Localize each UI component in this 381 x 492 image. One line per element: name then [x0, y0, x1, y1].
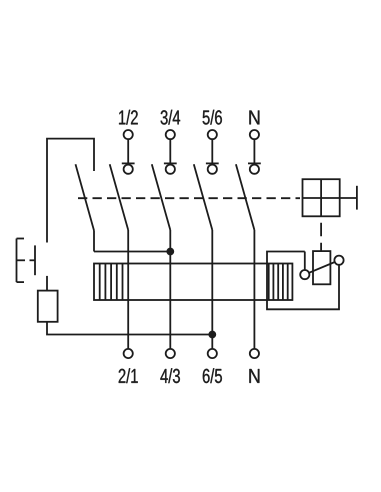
linkage mechanism to relay [320, 216, 322, 251]
wire pole4 down [253, 230, 255, 349]
wire pole3 top [211, 139, 213, 163]
switch blade pole2 [152, 164, 171, 230]
label N bottom [249, 369, 259, 383]
label 6/5 [203, 368, 222, 383]
label 4/3 [160, 368, 180, 383]
relay contact left [300, 270, 309, 279]
wire test branch top-left bracket [47, 139, 94, 243]
fixed contact pole3 [206, 163, 219, 173]
relay contact right [334, 256, 343, 265]
label N top [249, 111, 259, 125]
junction pole2 test tap [167, 249, 173, 255]
terminal 4/3 bottom [166, 349, 175, 358]
fixed contact pole4 [248, 163, 261, 173]
relay contact blade [309, 262, 335, 273]
wire pole4 top [253, 139, 255, 163]
label 5/6 [203, 110, 222, 125]
wire test pole down [93, 231, 95, 252]
wire button to resistor [46, 276, 48, 291]
test button contact bar [34, 245, 36, 275]
switch blade pole4 [236, 164, 255, 230]
terminal 3/4 top [166, 130, 175, 139]
resistor R test [38, 291, 58, 322]
toroid core [94, 264, 292, 301]
wire pole1 top [127, 139, 129, 163]
terminal 2/1 bottom [124, 349, 133, 358]
wire secondary to contact [304, 252, 306, 271]
wire pole1 down [127, 230, 129, 349]
label 3/4 [161, 110, 181, 125]
fixed contact pole2 [164, 163, 177, 173]
fixed contact pole1 [122, 163, 135, 173]
manual handle [356, 186, 358, 210]
switch blade test pole [76, 164, 95, 230]
wire mechanism to handle [340, 197, 357, 199]
trip relay coil [313, 251, 330, 284]
terminal 6/5 bottom [208, 349, 217, 358]
terminal 1/2 top [124, 130, 133, 139]
wire pole2 down [169, 230, 171, 349]
wire secondary loop [267, 252, 339, 310]
toroid winding left [100, 264, 123, 301]
switch blade pole1 [110, 164, 129, 230]
toroid secondary winding [269, 264, 288, 301]
wire pole2 top [169, 139, 171, 163]
label 1/2 [119, 110, 138, 125]
switch blade pole3 [194, 164, 213, 230]
mechanism box [303, 179, 340, 216]
junction pole3 test tap [209, 332, 215, 338]
terminal N bottom [250, 349, 259, 358]
terminal 5/6 top [208, 130, 217, 139]
terminal N top [250, 130, 259, 139]
wire pole3 down [211, 230, 213, 349]
linkage mechanism to poles [78, 197, 300, 199]
test button T [17, 239, 36, 283]
label 2/1 [119, 368, 138, 383]
wire resistor to pole3 [47, 322, 212, 335]
wire test branch to pole2 [94, 251, 170, 253]
